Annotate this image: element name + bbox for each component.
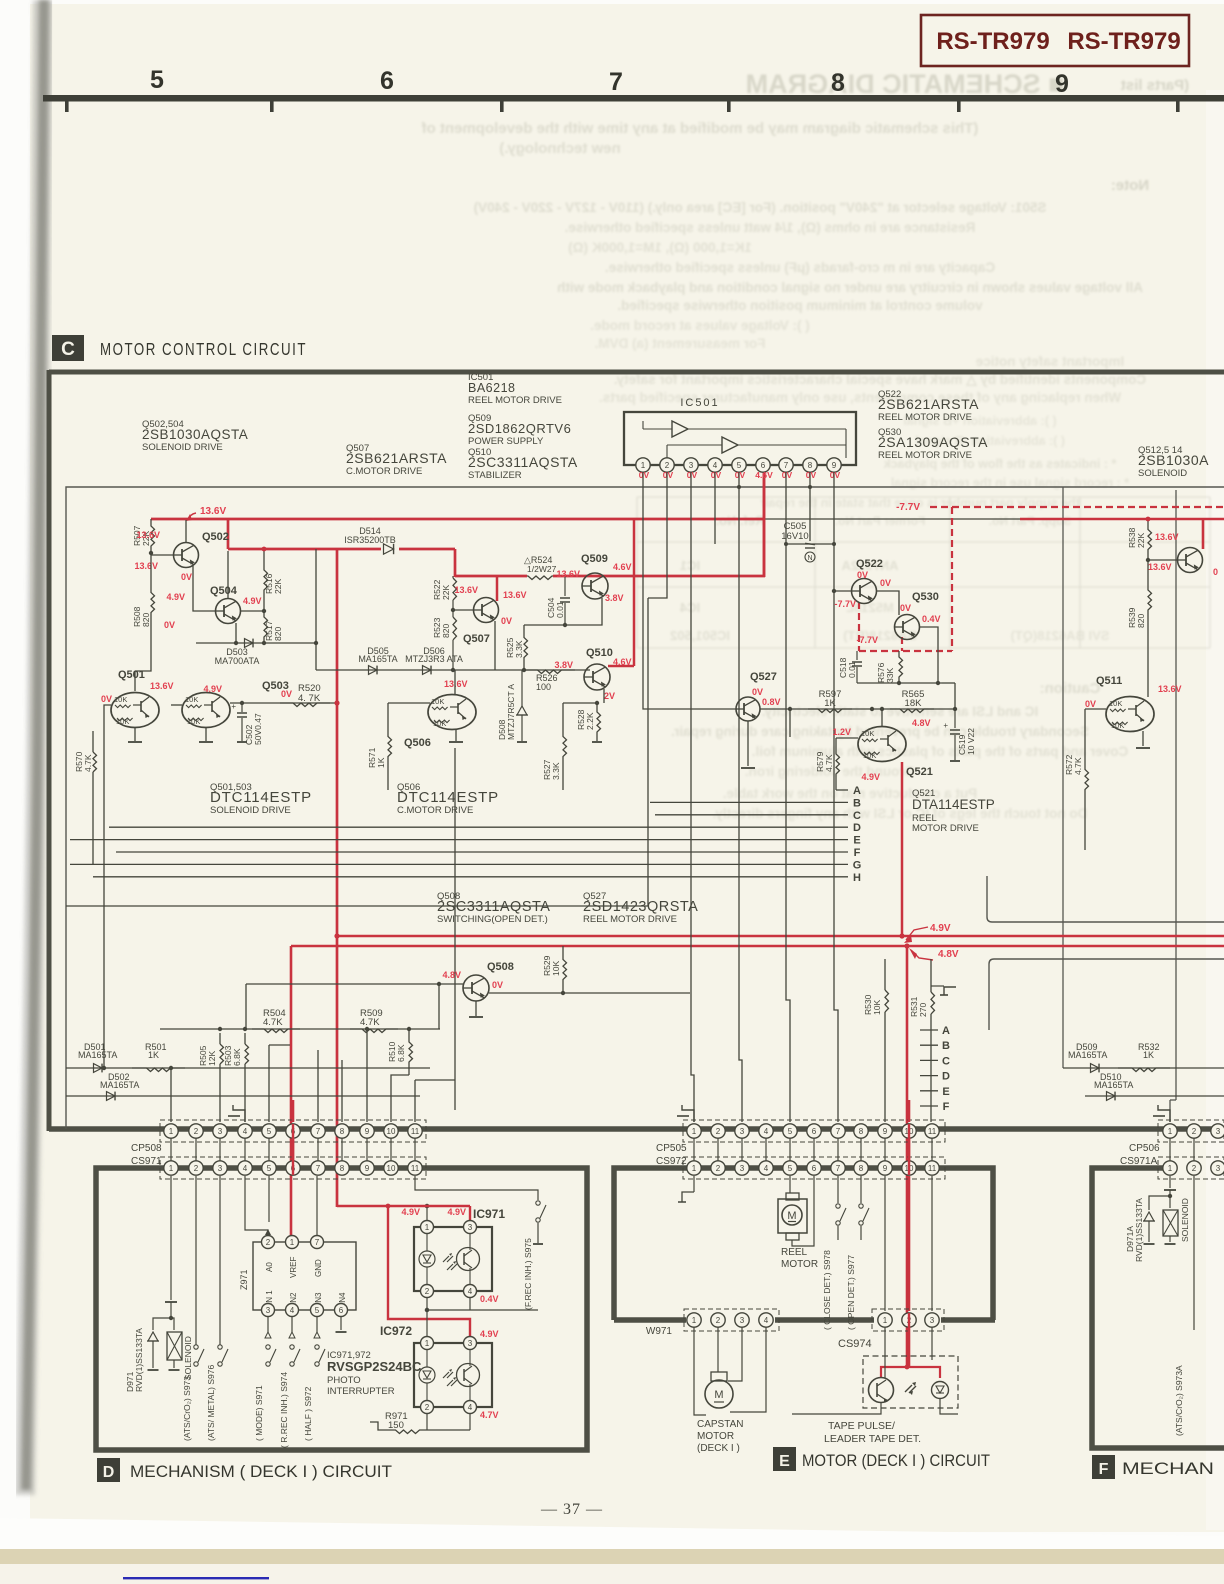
svg-text:ISR35200TB: ISR35200TB	[344, 535, 396, 545]
svg-text:2SD1423QRSTA: 2SD1423QRSTA	[583, 899, 698, 915]
transistor Q506 digital	[428, 695, 476, 730]
svg-text:MOTOR DRIVE: MOTOR DRIVE	[912, 823, 979, 834]
svg-text:4: 4	[243, 1164, 248, 1173]
svg-text:11: 11	[411, 1164, 420, 1173]
svg-text:Q502: Q502	[202, 531, 229, 543]
svg-text:9: 9	[883, 1164, 888, 1173]
red corner x=455 rail2 to rail3	[454, 549, 457, 577]
svg-text:11: 11	[928, 1164, 937, 1173]
svg-text:Q511: Q511	[1096, 675, 1122, 687]
capstan motor symbol	[711, 1372, 727, 1381]
svg-text:( CLOSE DET.) S978: ( CLOSE DET.) S978	[822, 1250, 832, 1330]
svg-text:W971: W971	[646, 1326, 673, 1337]
svg-text:SOLENOID: SOLENOID	[1180, 1198, 1190, 1242]
wires W971 pins to capstan	[694, 1327, 706, 1415]
svg-text:Ref. No.: Ref. No.	[715, 513, 764, 528]
wire IC501 pin3 long	[691, 472, 694, 1122]
svg-text:2SB621ARSTA: 2SB621ARSTA	[346, 450, 447, 466]
svg-text:2: 2	[266, 1238, 271, 1247]
svg-text:C: C	[61, 339, 75, 360]
diode D503 line	[196, 642, 316, 644]
wire CS972 pin1 ground bracket	[693, 1176, 695, 1192]
svg-text:■ SCHEMATIC DIAGRAM: ■ SCHEMATIC DIAGRAM	[746, 69, 1065, 99]
svg-text:10K: 10K	[187, 717, 200, 726]
svg-text:4.7K: 4.7K	[83, 754, 93, 772]
zener D508	[521, 670, 523, 706]
svg-text:0.01: 0.01	[847, 661, 857, 678]
transistor Q530	[895, 615, 920, 640]
section F box border	[1092, 1168, 1224, 1448]
Q507 base wire	[453, 609, 473, 611]
svg-text:2.2K: 2.2K	[585, 712, 595, 730]
svg-text:0.01: 0.01	[555, 601, 565, 618]
svg-text:820: 820	[141, 613, 151, 627]
diode D971A RVD1SS133TA	[1149, 1196, 1170, 1210]
switch S975 F.REC INH	[415, 1176, 538, 1200]
svg-text:4.9V: 4.9V	[166, 592, 185, 602]
svg-text:VREF: VREF	[289, 1257, 298, 1278]
switch S973	[195, 1176, 197, 1345]
wire Q522 base from pin9 line	[834, 590, 851, 592]
svg-text:10: 10	[387, 1164, 396, 1173]
svg-text:IC4: IC4	[679, 600, 700, 615]
svg-text:SOLENOID: SOLENOID	[1138, 468, 1187, 479]
Q501 base wire	[104, 705, 111, 1068]
svg-text:6: 6	[761, 461, 766, 470]
diode D971 RVD1SS133TA	[153, 1318, 171, 1330]
wire IC501 pin9 long	[834, 472, 838, 1122]
connector row CS972 dashed box	[683, 1157, 945, 1179]
svg-text:4: 4	[713, 461, 718, 470]
svg-text:4.7K: 4.7K	[360, 1017, 380, 1028]
svg-text:10K: 10K	[433, 719, 446, 728]
transistor Q510	[584, 664, 610, 690]
wire R579 to connector A	[836, 789, 848, 791]
svg-text:9: 9	[832, 461, 837, 470]
svg-text:2: 2	[1192, 1164, 1197, 1173]
svg-text:6.8K: 6.8K	[232, 1048, 242, 1066]
svg-text:IN 1: IN 1	[265, 1290, 274, 1305]
svg-text:A: A	[942, 1025, 950, 1037]
svg-text:820: 820	[273, 627, 283, 641]
section C bottom border / connector bus line	[49, 1126, 1224, 1132]
svg-text:4.9V: 4.9V	[861, 772, 880, 782]
wire Q504 collector to rail2	[227, 551, 229, 599]
circled N polarity mark	[805, 552, 815, 562]
Q511 base wire	[1085, 708, 1106, 710]
svg-text:4: 4	[764, 1164, 769, 1173]
svg-text:G: G	[853, 859, 862, 871]
red rail 13.6V horizontal	[151, 518, 764, 521]
CS974 dashed box	[863, 1356, 958, 1408]
svg-text:CS972: CS972	[656, 1156, 687, 1167]
svg-text:Resistance are in ohms (Ω), 1/: Resistance are in ohms (Ω), 1/4 watt unl…	[565, 220, 976, 235]
svg-text:10K: 10K	[1111, 721, 1124, 730]
svg-text:8: 8	[340, 1127, 345, 1136]
svg-text:MA165TA: MA165TA	[358, 654, 397, 664]
svg-text:Z971: Z971	[239, 1269, 249, 1290]
wire Q522 collector to Q530	[877, 591, 899, 615]
svg-text:3: 3	[468, 1223, 473, 1232]
wire CS972 pin5 to reel motor	[789, 1176, 791, 1193]
svg-text:6: 6	[812, 1164, 817, 1173]
svg-text:820: 820	[1136, 614, 1146, 628]
svg-text:(DECK I ): (DECK I )	[697, 1443, 740, 1454]
svg-text:C: C	[853, 810, 861, 822]
IC971 light arrows	[443, 1256, 453, 1262]
svg-text:INTERRUPTER: INTERRUPTER	[327, 1386, 395, 1397]
svg-text:4: 4	[764, 1127, 769, 1136]
IC501 internal wires	[643, 428, 672, 430]
svg-text:A: A	[853, 785, 861, 797]
svg-text:C: C	[942, 1055, 950, 1067]
svg-text:SOLENOID DRIVE: SOLENOID DRIVE	[142, 442, 223, 453]
svg-text:50V0.47: 50V0.47	[253, 713, 263, 745]
svg-text:SWITCHING(OPEN DET.): SWITCHING(OPEN DET.)	[437, 914, 548, 925]
svg-text:DTC114ESTP: DTC114ESTP	[210, 789, 312, 806]
svg-text:2: 2	[194, 1127, 199, 1136]
svg-text:2: 2	[716, 1164, 721, 1173]
svg-text:9: 9	[365, 1164, 370, 1173]
red wire pin2 into CS974 box	[908, 1327, 911, 1368]
svg-text:DTA114ESTP: DTA114ESTP	[912, 797, 995, 812]
resistor R528 2.2K	[597, 703, 601, 741]
svg-text:POWER SUPPLY: POWER SUPPLY	[468, 436, 544, 447]
svg-text:4.9V: 4.9V	[447, 1207, 466, 1217]
svg-text:Q530: Q530	[912, 591, 939, 603]
wires CS971 pins4,7 to Z971	[245, 1176, 268, 1236]
wire R539 down to Q511	[1147, 640, 1149, 697]
svg-text:BA6218(RT): BA6218(RT)	[843, 628, 917, 643]
svg-text:4.9V: 4.9V	[930, 923, 951, 934]
svg-text:8: 8	[808, 461, 813, 470]
svg-text:GND: GND	[314, 1259, 323, 1277]
svg-text:13.6V: 13.6V	[150, 681, 174, 691]
svg-text:6: 6	[339, 1306, 344, 1315]
svg-text:S501: Voltage selector at "240: S501: Voltage selector at "240V" positio…	[474, 200, 1047, 215]
red vertical IC501 pin6 feed	[763, 464, 766, 577]
svg-text:1: 1	[425, 1339, 430, 1348]
svg-text:Note:: Note:	[1111, 177, 1149, 194]
svg-text:1K: 1K	[824, 698, 836, 709]
svg-text:BA6218: BA6218	[468, 381, 515, 395]
resistor R522 22K	[453, 578, 457, 600]
diode D514 on rail	[384, 544, 394, 554]
svg-text:(ATS/ METAL) S976: (ATS/ METAL) S976	[206, 1365, 216, 1441]
svg-text:CS971A: CS971A	[1120, 1156, 1158, 1167]
svg-text:4. 7K: 4. 7K	[298, 693, 321, 704]
wire y=709 with R597 R565	[760, 708, 955, 710]
wire R508 down to Q501 region	[135, 650, 151, 671]
svg-text:E: E	[779, 1453, 790, 1470]
svg-text:4.7K: 4.7K	[1073, 757, 1083, 775]
op-amp IC IC501 outline	[624, 412, 856, 465]
svg-text:2V: 2V	[604, 691, 615, 701]
svg-text:MOTOR: MOTOR	[697, 1431, 734, 1442]
svg-text:4.8V: 4.8V	[938, 949, 959, 960]
svg-text:* : record signal u: * : record signal use in the record sign…	[891, 476, 1129, 490]
ground bracket above CP508	[233, 1105, 245, 1122]
switches S971 S974 S972 below Z971	[267, 1317, 269, 1332]
svg-text:33K: 33K	[885, 668, 895, 683]
transistor Q502	[151, 554, 174, 556]
section E box bottom border	[614, 1317, 686, 1323]
connector CP506 pins	[1158, 1120, 1224, 1142]
svg-text:7: 7	[836, 1164, 841, 1173]
svg-text:4.8V: 4.8V	[912, 718, 931, 728]
connector row CS971 pins	[164, 1161, 178, 1175]
inter-row wires CP505	[693, 1138, 695, 1161]
resistor R539 820	[1148, 560, 1152, 640]
capacitor C502 50V0.47	[241, 703, 243, 712]
resistor R532 1K	[1118, 1068, 1170, 1072]
ground bracket R531	[944, 987, 956, 995]
svg-text:0V: 0V	[880, 578, 891, 588]
svg-text:10K: 10K	[114, 695, 127, 704]
red dashed -7.7V loop Q522/Q530	[858, 602, 860, 651]
bleed-through mirrored text	[421, 69, 1210, 821]
svg-text:0.4V: 0.4V	[922, 614, 941, 624]
svg-text:3: 3	[740, 1127, 745, 1136]
svg-text:REEL MOTOR DRIVE: REEL MOTOR DRIVE	[468, 395, 562, 406]
svg-text:Q521: Q521	[906, 766, 933, 778]
transistor Q509	[582, 573, 608, 599]
svg-text:10 V22: 10 V22	[966, 728, 976, 755]
red stub to Q507 collector	[496, 576, 499, 601]
svg-text:0V: 0V	[830, 470, 841, 480]
svg-text:2SD1862QRTV6: 2SD1862QRTV6	[468, 421, 571, 436]
svg-text:2: 2	[665, 461, 670, 470]
resistor R524 on red rail	[527, 576, 553, 580]
svg-text:0V: 0V	[735, 470, 746, 480]
svg-text:4.9V: 4.9V	[243, 596, 262, 606]
Q511 ground	[1142, 731, 1144, 746]
svg-text:3.3K: 3.3K	[551, 762, 561, 780]
wire y=683	[857, 682, 942, 684]
svg-text:10K: 10K	[1109, 699, 1122, 708]
connector W971 pins	[684, 1309, 779, 1331]
svg-text:10K: 10K	[872, 1000, 882, 1015]
Q509 emitter wire	[565, 598, 602, 625]
svg-text:MA165TA: MA165TA	[1094, 1080, 1133, 1090]
wire IC501 pin8	[809, 472, 811, 541]
svg-text:7: 7	[316, 1164, 321, 1173]
svg-text:1K: 1K	[376, 757, 386, 768]
svg-text:3: 3	[468, 1339, 473, 1348]
svg-text:3: 3	[930, 1316, 935, 1325]
svg-text:B: B	[942, 1040, 950, 1052]
section label F box	[1092, 1455, 1115, 1479]
transistor Q508	[463, 975, 489, 1001]
resistor R517 820	[264, 611, 268, 643]
svg-text:8: 8	[859, 1127, 864, 1136]
section label E box	[773, 1447, 796, 1471]
resistor R971 150	[426, 1414, 428, 1430]
svg-text:1: 1	[425, 1223, 430, 1232]
svg-text:1: 1	[883, 1316, 888, 1325]
wire CS971A pin1 down	[1169, 1176, 1171, 1188]
svg-text:11: 11	[411, 1127, 420, 1136]
svg-text:Q509: Q509	[581, 553, 608, 565]
IC972 phototransistor	[457, 1364, 480, 1387]
IC Z971 box	[253, 1242, 356, 1310]
capacitor C504 0.01	[564, 576, 566, 596]
svg-text:2SB1030A: 2SB1030A	[1138, 452, 1209, 468]
red horizontal H2 4.8V	[291, 945, 1224, 948]
long wire vertical x=1063	[1062, 487, 1064, 1068]
svg-text:Q501: Q501	[118, 669, 145, 681]
svg-text:D: D	[942, 1071, 950, 1083]
svg-text:8: 8	[340, 1164, 345, 1173]
svg-text:22K: 22K	[441, 585, 451, 600]
svg-text:7: 7	[784, 461, 789, 470]
svg-text:2: 2	[716, 1127, 721, 1136]
svg-text:F: F	[1099, 1461, 1109, 1478]
svg-text:6.8K: 6.8K	[396, 1044, 406, 1062]
svg-text:E: E	[853, 835, 860, 847]
resistor R530 10K	[884, 959, 886, 990]
svg-text:3.8V: 3.8V	[605, 593, 624, 603]
resistor R571 1K	[388, 703, 392, 790]
svg-text:4.9V: 4.9V	[203, 684, 222, 694]
red dashed -7.7V rail	[930, 506, 1224, 508]
svg-text:3: 3	[266, 1306, 271, 1315]
model number box RS-TR979	[921, 15, 1189, 66]
svg-text:Caution:: Caution:	[1040, 680, 1101, 697]
svg-text:3: 3	[218, 1164, 223, 1173]
svg-text:4: 4	[290, 1306, 295, 1315]
connector row CP508 pins	[164, 1124, 178, 1138]
Q503 ground	[205, 728, 207, 741]
svg-text:4.7K: 4.7K	[824, 754, 834, 772]
resistor R527 3.3K	[563, 703, 567, 790]
capacitor C505	[786, 543, 834, 545]
svg-text:CS971: CS971	[131, 1156, 162, 1167]
wire D503 corner down	[315, 549, 317, 670]
svg-text:0V: 0V	[900, 603, 911, 613]
svg-text:Do not touch the legs of IC or: Do not touch the legs of IC or LSI with …	[713, 806, 1088, 821]
svg-text:6: 6	[812, 1127, 817, 1136]
svg-text:3.3K: 3.3K	[514, 640, 524, 658]
svg-text:5: 5	[150, 66, 164, 94]
svg-text:5: 5	[737, 461, 742, 470]
svg-text:REEL: REEL	[781, 1247, 808, 1258]
svg-text:RVD(1)SS133TA: RVD(1)SS133TA	[134, 1328, 144, 1392]
svg-text:1: 1	[169, 1127, 174, 1136]
red corner down to section D x=291	[290, 946, 293, 1240]
svg-text:13.6V: 13.6V	[556, 569, 580, 579]
connector row CP505 dashed box	[683, 1120, 945, 1142]
red horizontal H1 4.9V	[336, 935, 1224, 938]
grid ticks	[65, 99, 69, 112]
svg-text:0V: 0V	[752, 687, 763, 697]
wire Q502 emitter to Q504	[193, 566, 216, 611]
resistor R520 4.7K	[230, 702, 337, 704]
svg-text:SOLENOID: SOLENOID	[183, 1336, 193, 1380]
svg-text:-7.7V: -7.7V	[896, 502, 920, 513]
wire Q502 collector	[185, 520, 187, 543]
svg-text:4.8V: 4.8V	[442, 970, 461, 980]
svg-text:F: F	[943, 1101, 950, 1113]
svg-text:MOTOR CONTROL CIRCUIT: MOTOR CONTROL CIRCUIT	[100, 339, 307, 359]
svg-text:13.6V: 13.6V	[1155, 532, 1179, 542]
ground bracket above CP506	[1158, 1105, 1170, 1122]
svg-text:2SB621ARSTA: 2SB621ARSTA	[878, 396, 979, 412]
wires down to CP508	[170, 1068, 172, 1122]
Q512 base wire	[1148, 559, 1177, 561]
transistor Q521 digital	[858, 727, 906, 762]
red stub x=634 Q509/Q510	[633, 519, 636, 666]
svg-text:0: 0	[1213, 567, 1218, 577]
svg-text:1: 1	[692, 1316, 697, 1325]
section C outer border left	[47, 370, 52, 1131]
svg-text:MA165TA: MA165TA	[100, 1080, 139, 1090]
svg-text:RS-TR979: RS-TR979	[1067, 28, 1180, 55]
svg-text:9: 9	[883, 1127, 888, 1136]
svg-text:Q522: Q522	[856, 558, 883, 570]
Z971 bottom pins	[262, 1304, 275, 1317]
svg-text:1: 1	[1168, 1164, 1173, 1173]
svg-text:Q510: Q510	[586, 647, 613, 659]
svg-text:0.4V: 0.4V	[480, 1294, 499, 1304]
svg-text:4.7V: 4.7V	[480, 1410, 499, 1420]
svg-text:F: F	[854, 847, 861, 859]
svg-text:0V: 0V	[711, 470, 722, 480]
svg-text:1K: 1K	[148, 1050, 159, 1060]
resistor R509 4.7K	[350, 1029, 398, 1033]
IC501 pins 1-9	[636, 458, 650, 472]
IC971 LED	[419, 1251, 435, 1267]
svg-text:10K: 10K	[185, 695, 198, 704]
solenoid coil symbol F	[1169, 1196, 1171, 1208]
svg-text:3: 3	[740, 1164, 745, 1173]
red rail2 horizontal y=549	[228, 548, 381, 551]
svg-text:13.6V: 13.6V	[1148, 562, 1172, 572]
svg-text:( HALF ) S972: ( HALF ) S972	[303, 1386, 313, 1441]
svg-text:12K: 12K	[207, 1051, 217, 1066]
red long vertical Q521 to 4.9V junction	[901, 762, 904, 937]
Q503 base wire	[171, 704, 182, 706]
red vertical x=907 to tape pulse	[906, 946, 909, 1368]
svg-text:7: 7	[315, 1238, 320, 1247]
blue pen line bottom left	[123, 1577, 269, 1579]
svg-text:MA165TA: MA165TA	[1068, 1050, 1107, 1060]
section label C box	[52, 335, 84, 361]
Q506 ground	[455, 730, 457, 741]
svg-text:150: 150	[388, 1420, 404, 1431]
switch S977 OPEN DET	[860, 1176, 862, 1203]
wire IC971 pin2 to IC972 pin1	[426, 1298, 428, 1337]
resistor R503 6.8K	[244, 1033, 246, 1044]
svg-text:REEL MOTOR DRIVE: REEL MOTOR DRIVE	[878, 450, 972, 461]
red wire through connector circles CP505-10	[908, 1124, 910, 1175]
svg-text:When replacing any of these co: When replacing any of these components, …	[599, 390, 1121, 405]
svg-text:4: 4	[468, 1403, 473, 1412]
svg-text:Q507: Q507	[463, 633, 490, 645]
svg-text:4: 4	[243, 1127, 248, 1136]
wire IC501 pin4	[714, 472, 716, 544]
solenoid coil symbol	[171, 1318, 174, 1330]
photo interrupter IC972 box	[414, 1343, 492, 1407]
svg-text:MOTOR (DECK I ) CIRCUIT: MOTOR (DECK I ) CIRCUIT	[802, 1452, 990, 1470]
rounded frame wires right	[987, 876, 1224, 922]
wires trio pins into box	[884, 1327, 886, 1378]
switch S978 CLOSE DET	[837, 1176, 839, 1203]
svg-text:5: 5	[315, 1306, 320, 1315]
connector CS974 trio pins	[872, 1309, 944, 1331]
svg-text:0V: 0V	[492, 980, 503, 990]
resistor R570 4.7K	[92, 731, 94, 752]
